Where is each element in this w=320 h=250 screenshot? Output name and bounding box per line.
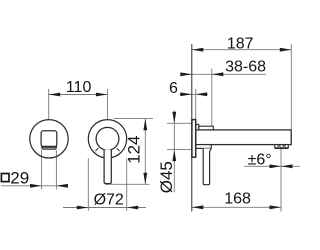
svg-text:6: 6 <box>169 80 178 97</box>
svg-text:38-68: 38-68 <box>225 58 266 75</box>
svg-text:110: 110 <box>66 79 92 96</box>
svg-text:±6°: ±6° <box>248 152 272 169</box>
svg-text:Ø45: Ø45 <box>157 161 176 193</box>
svg-text:Ø72: Ø72 <box>94 191 124 208</box>
svg-text:29: 29 <box>10 169 29 188</box>
svg-text:187: 187 <box>227 35 254 52</box>
svg-text:124: 124 <box>124 136 143 164</box>
svg-text:168: 168 <box>224 191 251 208</box>
